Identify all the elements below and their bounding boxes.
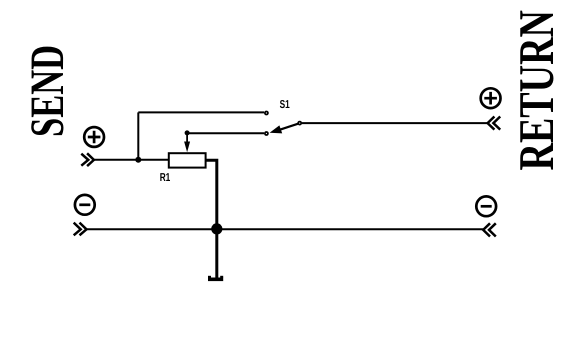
wire resistor right lead and down to ground [206, 160, 217, 280]
junction node bottom [211, 223, 222, 234]
wire junction up [137, 112, 139, 159]
wire to switch top contact [138, 111, 264, 113]
polarity + (send) [84, 127, 104, 147]
svg-text:S1: S1 [280, 99, 291, 111]
wire bottom (send - to return -) [86, 228, 483, 230]
wire switch common to return [302, 122, 488, 124]
wiper node [185, 130, 190, 135]
junction node [135, 157, 141, 163]
svg-text:RETURN: RETURN [508, 10, 564, 170]
polarity - (return) [476, 196, 496, 216]
connector chevrons send - [74, 223, 87, 236]
polarity + (return) [481, 88, 501, 108]
wire send + horizontal [94, 159, 169, 161]
connector chevrons send + [81, 153, 94, 166]
polarity - (send) [75, 195, 95, 215]
ground [208, 276, 223, 281]
wiper arrow [184, 133, 190, 152]
svg-text:R1: R1 [160, 172, 171, 184]
connector chevrons return - [483, 223, 496, 236]
potentiometer R1 body [169, 153, 206, 167]
wire wiper to switch bottom contact [187, 132, 264, 134]
switch S1 [265, 112, 301, 136]
svg-text:SEND: SEND [21, 45, 74, 137]
connector chevrons return + [488, 117, 501, 130]
